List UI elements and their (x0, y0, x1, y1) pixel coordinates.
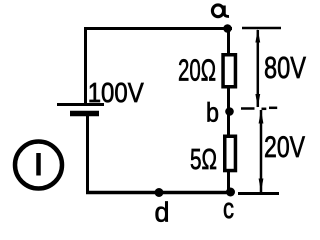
svg-text:80V: 80V (264, 50, 306, 85)
svg-text:b: b (206, 98, 219, 128)
svg-text:c: c (223, 193, 234, 225)
svg-text:5Ω: 5Ω (190, 144, 217, 176)
svg-text:d: d (155, 197, 170, 228)
svg-text:100V: 100V (88, 77, 144, 108)
svg-text:20Ω: 20Ω (178, 53, 216, 88)
svg-text:20V: 20V (264, 131, 305, 164)
